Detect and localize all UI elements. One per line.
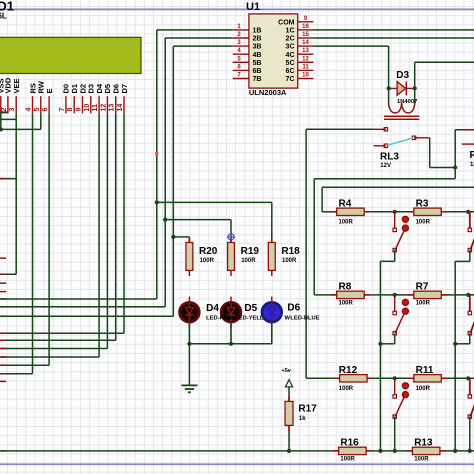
- svg-text:12: 12: [302, 56, 309, 62]
- svg-text:14: 14: [302, 40, 309, 46]
- svg-text:RL3: RL3: [380, 152, 399, 163]
- svg-text:100R: 100R: [416, 220, 431, 226]
- svg-text:7C: 7C: [286, 76, 295, 83]
- svg-text:R7: R7: [416, 281, 429, 292]
- svg-text:100R: 100R: [339, 301, 354, 307]
- svg-text:R13: R13: [414, 437, 433, 448]
- svg-text:RL2: RL2: [470, 150, 474, 161]
- svg-text:100R: 100R: [200, 258, 215, 264]
- svg-text:COM: COM: [278, 19, 295, 26]
- svg-text:100R: 100R: [339, 220, 354, 226]
- svg-text:D3: D3: [396, 70, 409, 81]
- svg-text:7B: 7B: [253, 76, 262, 83]
- svg-text:4: 4: [26, 108, 33, 112]
- svg-text:11: 11: [302, 64, 309, 70]
- svg-text:+5v: +5v: [282, 368, 292, 374]
- svg-text:2: 2: [1, 108, 8, 112]
- svg-text:11: 11: [92, 104, 99, 112]
- svg-text:12V: 12V: [380, 163, 391, 169]
- svg-text:ULN2003A: ULN2003A: [249, 88, 287, 97]
- svg-text:3: 3: [9, 108, 16, 112]
- svg-text:8: 8: [67, 108, 74, 112]
- svg-text:R12: R12: [339, 365, 358, 376]
- svg-text:13: 13: [302, 48, 309, 54]
- svg-text:1C: 1C: [286, 28, 295, 35]
- svg-text:LED-RED: LED-RED: [206, 316, 232, 322]
- svg-text:VEE: VEE: [12, 78, 21, 93]
- svg-text:4C: 4C: [286, 52, 295, 59]
- svg-text:100R: 100R: [414, 457, 429, 463]
- svg-text:100R: 100R: [339, 386, 354, 392]
- svg-text:5B: 5B: [253, 60, 262, 67]
- svg-text:R3: R3: [416, 198, 429, 209]
- svg-text:D5: D5: [244, 303, 257, 314]
- svg-text:12: 12: [100, 104, 107, 112]
- svg-text:7: 7: [59, 108, 66, 112]
- svg-text:2B: 2B: [253, 36, 262, 43]
- svg-text:E: E: [45, 88, 54, 93]
- svg-text:LM016L: LM016L: [0, 12, 7, 21]
- svg-text:6C: 6C: [286, 68, 295, 75]
- svg-text:3B: 3B: [253, 44, 262, 51]
- svg-text:U1: U1: [246, 1, 260, 13]
- svg-text:9: 9: [76, 108, 83, 112]
- svg-text:3C: 3C: [286, 44, 295, 51]
- svg-text:R17: R17: [298, 404, 317, 415]
- svg-text:R11: R11: [416, 365, 434, 376]
- svg-text:5: 5: [34, 108, 41, 112]
- svg-text:10: 10: [302, 73, 309, 79]
- svg-text:100R: 100R: [282, 258, 297, 264]
- svg-text:14: 14: [117, 104, 124, 112]
- svg-text:R16: R16: [340, 437, 359, 448]
- svg-text:100R: 100R: [416, 301, 431, 307]
- svg-text:1B: 1B: [253, 28, 262, 35]
- svg-text:100R: 100R: [241, 258, 256, 264]
- svg-text:R18: R18: [281, 246, 300, 257]
- svg-text:R20: R20: [199, 246, 218, 257]
- svg-text:R4: R4: [339, 198, 352, 209]
- svg-text:R19: R19: [241, 246, 260, 257]
- svg-text:6B: 6B: [253, 68, 262, 75]
- svg-text:2C: 2C: [286, 36, 295, 43]
- svg-text:12V: 12V: [470, 162, 474, 168]
- svg-text:D4: D4: [206, 303, 219, 314]
- svg-text:100R: 100R: [340, 457, 355, 463]
- svg-text:100R: 100R: [416, 386, 431, 392]
- svg-text:13: 13: [109, 104, 116, 112]
- svg-text:15: 15: [302, 32, 309, 38]
- svg-text:16: 16: [302, 24, 309, 30]
- svg-text:D6: D6: [287, 303, 300, 314]
- svg-text:10: 10: [84, 104, 91, 112]
- svg-text:1k: 1k: [299, 416, 306, 422]
- svg-text:R8: R8: [339, 281, 352, 292]
- svg-text:4B: 4B: [253, 52, 262, 59]
- svg-text:5C: 5C: [286, 60, 295, 67]
- svg-text:LED-BLUE: LED-BLUE: [290, 316, 319, 322]
- svg-text:6: 6: [42, 108, 49, 112]
- svg-text:D7: D7: [120, 84, 129, 94]
